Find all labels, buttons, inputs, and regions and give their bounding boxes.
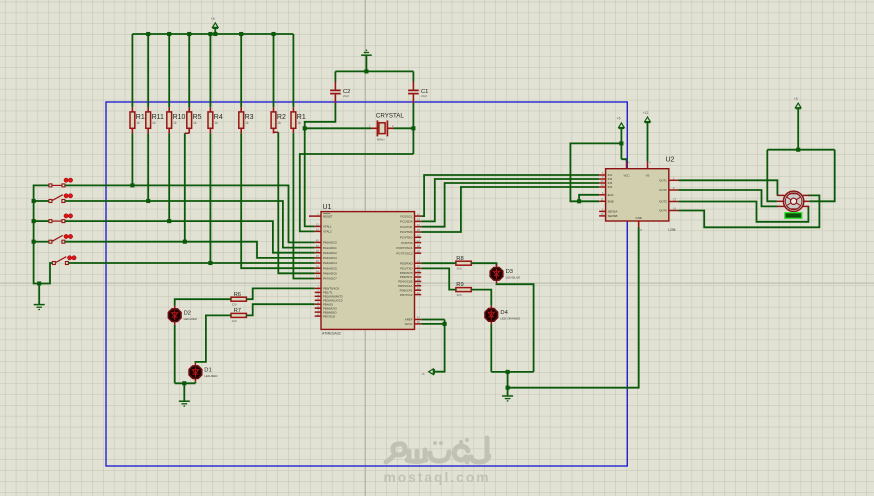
wire U1 to U2 IN3 <box>421 183 599 227</box>
LED D3 <box>496 264 498 267</box>
wire motor common left <box>767 149 834 151</box>
svg-text:PA6/ADC6: PA6/ADC6 <box>323 272 337 276</box>
junction on +5 bus <box>187 32 191 36</box>
power symbol +5 (top) <box>214 29 216 34</box>
svg-text:PA2/ADC2: PA2/ADC2 <box>323 251 337 255</box>
wire XTAL1 to U1 <box>305 128 315 226</box>
wire R7 to U1 PB4 <box>246 304 314 315</box>
junction <box>32 240 36 244</box>
svg-text:PA0/ADC0: PA0/ADC0 <box>323 241 337 245</box>
switch SW5 <box>52 262 55 265</box>
svg-text:LED-BLUE: LED-BLUE <box>506 275 521 279</box>
svg-text:1k: 1k <box>214 121 218 125</box>
wire SW2 left <box>34 200 49 202</box>
power symbol +5 (U2) <box>619 123 625 128</box>
wire +5 to ENA/ENB <box>570 143 621 201</box>
svg-text:PD0/RXD: PD0/RXD <box>400 261 413 265</box>
wire R4 to SW5 row <box>209 133 211 263</box>
motor driver U2 (L298) <box>606 169 669 221</box>
junction cap rail <box>364 69 368 73</box>
wire OUT2 to motor <box>678 190 777 206</box>
wire crystal pin2 <box>394 127 414 129</box>
svg-text:1k: 1k <box>136 121 140 125</box>
svg-text:1k: 1k <box>152 121 156 125</box>
resistor R10 (1k pull-up) <box>167 112 172 128</box>
wire OUT3 to motor <box>678 202 808 222</box>
svg-text:PC0/SCL: PC0/SCL <box>400 214 412 218</box>
wire ENA tap <box>579 195 599 202</box>
wire R8 to D3 <box>471 263 496 266</box>
junction U2 ground net <box>506 386 510 390</box>
wire D4 down <box>490 324 492 372</box>
svg-text:1k: 1k <box>297 121 301 125</box>
svg-text:PD6/ICP1: PD6/ICP1 <box>400 288 413 292</box>
wire R10 to SW3 row <box>168 133 170 221</box>
wire R1 to U1 PA7 <box>293 133 314 278</box>
ground (D3/D4/U2) <box>507 388 509 396</box>
microcontroller U1 (ATMEGA32) <box>321 212 415 330</box>
ground (switch bus) <box>38 284 40 305</box>
junction XTAL1 node <box>303 126 307 130</box>
wire SW5 to U1 PA4 <box>68 262 314 264</box>
resistor R4 (1k pull-up) <box>208 112 213 128</box>
junction D3/D4 ground <box>506 370 510 374</box>
svg-text:300: 300 <box>457 267 462 271</box>
svg-text:1k: 1k <box>173 121 177 125</box>
junction on +5 bus <box>271 32 275 36</box>
svg-text:+5: +5 <box>794 97 798 101</box>
wire +5 into VCC <box>621 159 626 161</box>
svg-text:8MHz: 8MHz <box>377 138 385 142</box>
svg-text:R8: R8 <box>456 256 463 262</box>
svg-text:PA5/ADC5: PA5/ADC5 <box>323 266 337 270</box>
svg-text:PD5/OC1A: PD5/OC1A <box>398 284 412 288</box>
svg-text:R7: R7 <box>234 308 241 314</box>
svg-text:AREF: AREF <box>405 318 413 322</box>
wire switch bus (left) <box>34 185 53 283</box>
svg-text:OUT4: OUT4 <box>659 209 667 213</box>
svg-text:XTAL1: XTAL1 <box>323 225 332 229</box>
svg-text:IN4: IN4 <box>608 185 613 189</box>
resistor R8 <box>456 261 471 265</box>
wire R7 to D1 <box>195 315 231 362</box>
resistor R9 <box>456 288 471 292</box>
wire SW2 to U1 PA1 <box>65 201 315 248</box>
svg-text:PA7/ADC7: PA7/ADC7 <box>323 277 337 281</box>
svg-text:D2: D2 <box>184 310 191 316</box>
svg-text:U2: U2 <box>666 157 675 164</box>
svg-text:CRYSTAL: CRYSTAL <box>376 113 405 120</box>
svg-text:PD4/OC1B: PD4/OC1B <box>398 280 412 284</box>
wire motor common right drop <box>809 150 834 202</box>
svg-text:PC3/TMS: PC3/TMS <box>400 230 413 234</box>
switch SW4 <box>49 240 52 243</box>
wire U1 to U2 IN4 <box>421 187 599 232</box>
svg-text:RESET: RESET <box>323 214 333 218</box>
svg-text:OUT2: OUT2 <box>659 188 667 192</box>
svg-text:+12: +12 <box>643 111 649 115</box>
svg-text:PC5/TDI: PC5/TDI <box>401 241 412 245</box>
svg-text:PA3/ADC3: PA3/ADC3 <box>323 256 337 260</box>
svg-text:PC7/TOSC2: PC7/TOSC2 <box>396 251 412 255</box>
svg-text:+5: +5 <box>211 17 215 21</box>
svg-text:D4: D4 <box>500 310 508 316</box>
wire AREF/AVCC down <box>434 320 444 372</box>
svg-text:PA4/ADC4: PA4/ADC4 <box>323 261 337 265</box>
wire R6 to D2 <box>175 299 231 306</box>
svg-text:22pF: 22pF <box>343 94 350 98</box>
wire SW1 to U1 PA0 <box>65 185 315 242</box>
svg-text:PB7/SCK: PB7/SCK <box>323 314 335 318</box>
wire cap rail <box>335 70 413 72</box>
svg-text:PD3/INT1: PD3/INT1 <box>400 275 413 279</box>
resistor R5 (1k pull-up) <box>187 112 192 128</box>
svg-text:22pF: 22pF <box>421 94 428 98</box>
svg-text:PC6/TOSC1: PC6/TOSC1 <box>396 246 412 250</box>
wire D3 down <box>497 283 534 372</box>
junction ENA tap <box>577 199 581 203</box>
svg-text:mostaql.com: mostaql.com <box>383 470 490 485</box>
wire crystal pin1 <box>305 127 371 129</box>
switch SW3 <box>49 220 52 223</box>
junction at ground tap <box>37 281 41 285</box>
wire U1 PD1 to R9 <box>421 268 456 289</box>
capacitor C2 <box>334 82 336 90</box>
svg-text:LED-ORANGE: LED-ORANGE <box>500 317 520 321</box>
ground (cap rail, inverted) <box>365 56 367 72</box>
svg-text:1k: 1k <box>277 121 281 125</box>
junction on +5 bus <box>213 32 217 36</box>
svg-text:PC2/TCK: PC2/TCK <box>400 225 412 229</box>
wire R5 to SW4 row (jog) <box>185 132 189 134</box>
svg-text:220: 220 <box>232 319 237 323</box>
switch SW2 <box>49 200 52 203</box>
svg-text:PA1/ADC1: PA1/ADC1 <box>323 246 337 250</box>
wire AVCC <box>421 323 444 325</box>
svg-text:220: 220 <box>232 303 237 307</box>
junction LED ground <box>182 381 186 385</box>
wire R3 to U1 PA5 <box>241 133 315 268</box>
wire SW3 to U1 PA2 <box>65 221 315 253</box>
ground (D1/D2) <box>183 383 185 400</box>
stepper motor <box>783 191 803 211</box>
svg-text:LED-RED: LED-RED <box>204 374 218 378</box>
resistor R2 (1k pull-up) <box>271 112 276 128</box>
wire XTAL2 to U1 <box>300 154 414 231</box>
junction +5/ENA <box>619 141 623 145</box>
crystal X1 <box>371 127 377 129</box>
power arrow (AREF return) <box>429 369 434 375</box>
svg-text:SENSB: SENSB <box>608 214 618 218</box>
svg-text:300: 300 <box>457 293 462 297</box>
resistor R3 (1k pull-up) <box>239 112 244 128</box>
wire C1 down <box>412 103 414 154</box>
svg-text:L298: L298 <box>668 228 675 232</box>
LED D2 <box>174 306 176 309</box>
wire U2 GND to ground <box>508 228 639 388</box>
svg-text:1k: 1k <box>245 121 249 125</box>
motor speed indicator <box>785 213 802 219</box>
wire U1 PD0 to R8 <box>421 262 456 264</box>
wire SW4 to U1 PA3 <box>65 242 315 258</box>
junction <box>32 199 36 203</box>
wire R6 to U1 PB0 <box>246 288 314 299</box>
junction on +5 bus <box>146 32 150 36</box>
wire D2 to ground rail <box>174 325 176 384</box>
wire OUT4 to motor <box>678 195 819 227</box>
svg-text:U1: U1 <box>323 204 332 211</box>
wire R11 to SW2 row <box>147 133 149 201</box>
svg-text:AVCC: AVCC <box>405 322 413 326</box>
wire U1 to U2 IN2 <box>421 179 599 221</box>
wire R12 to SW1 row <box>131 133 133 185</box>
switch SW1 <box>49 184 52 187</box>
svg-text:VCC: VCC <box>623 173 629 177</box>
svg-text:+5: +5 <box>617 117 621 121</box>
wire R9 to D4 <box>471 290 491 306</box>
svg-text:ENB: ENB <box>608 200 614 204</box>
wire LED ground rail <box>175 382 196 384</box>
junction motor +5 <box>796 148 800 152</box>
svg-text:ENA: ENA <box>608 193 614 197</box>
power +5 rail (top bus) <box>132 33 293 35</box>
wire ground stem <box>507 372 509 388</box>
svg-text:PC4/TDO: PC4/TDO <box>400 236 413 240</box>
LED D1 <box>194 363 196 366</box>
svg-text:D1: D1 <box>204 367 211 373</box>
wire AREF <box>421 319 444 321</box>
junction on +5 bus <box>239 32 243 36</box>
power symbol +12 (U2 VS) <box>645 117 651 122</box>
wire SW3 left <box>34 220 49 222</box>
junction XTAL2 node <box>411 126 415 130</box>
power symbol +5 (motor) <box>795 103 801 108</box>
svg-text:LED-RED: LED-RED <box>184 317 198 321</box>
wire R2 to U1 PA6 <box>274 131 279 133</box>
wire C2 to XTAL1 node <box>305 103 336 128</box>
wire U1 to U2 IN1 <box>421 175 599 216</box>
svg-text:VS: VS <box>646 173 650 177</box>
svg-text:SENSA: SENSA <box>608 210 618 214</box>
wire D3/D4 ground rail <box>491 371 533 373</box>
svg-text:ATMEGA32: ATMEGA32 <box>322 332 341 336</box>
svg-text:R9: R9 <box>456 282 463 288</box>
wire motor common left drop <box>767 150 777 202</box>
svg-text:XTAL2: XTAL2 <box>323 230 332 234</box>
resistor R12 (1k pull-up) <box>130 112 135 128</box>
svg-text:PD2/INT0: PD2/INT0 <box>400 271 413 275</box>
junction AREF/AVCC <box>443 322 447 326</box>
svg-text:R6: R6 <box>234 292 241 298</box>
wire D1 to ground rail <box>194 382 196 384</box>
svg-text:1k: 1k <box>193 121 197 125</box>
LED D4 <box>490 305 492 308</box>
wire SW4 left <box>34 241 49 243</box>
junction on +5 bus <box>208 32 212 36</box>
svg-text:D3: D3 <box>506 269 513 275</box>
svg-text:PD7/OC2: PD7/OC2 <box>400 293 413 297</box>
junction <box>32 219 36 223</box>
resistor R11 (1k pull-up) <box>146 112 151 128</box>
svg-text:OUT3: OUT3 <box>659 200 667 204</box>
svg-text:GND: GND <box>635 216 641 220</box>
svg-text:PC1/SDA: PC1/SDA <box>400 220 412 224</box>
svg-text:OUT1: OUT1 <box>659 179 667 183</box>
wire OUT1 to motor <box>678 180 777 195</box>
resistor R6 <box>231 297 246 301</box>
resistor R1 (1k pull-up) <box>291 112 296 128</box>
junction on +5 bus <box>167 32 171 36</box>
capacitor C1 <box>412 82 414 90</box>
resistor R7 <box>231 313 246 317</box>
